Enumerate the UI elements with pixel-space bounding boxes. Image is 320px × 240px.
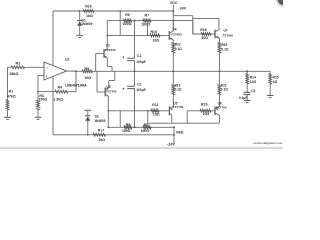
svg-text:0.1μF: 0.1μF	[239, 96, 247, 100]
wire cross top	[119, 11, 121, 35]
node U3C L2B	[107, 110, 109, 128]
svg-text:+: +	[46, 75, 48, 79]
node VCC L1	[172, 10, 174, 12]
node D2 rail	[87, 134, 89, 136]
svg-text:FZT705: FZT705	[216, 105, 227, 109]
svg-text:FZT605: FZT605	[171, 32, 182, 36]
ground R1	[4, 110, 11, 119]
power VEE	[167, 127, 184, 146]
resistor R6	[123, 13, 132, 26]
wire R2 to op-amp	[25, 66, 45, 68]
node U4 emitter rail	[172, 70, 174, 72]
wire U2 emitter	[107, 58, 112, 71]
capacitor C1	[122, 21, 145, 72]
wire bottom base bus left	[108, 110, 169, 112]
svg-text:R1: R1	[9, 90, 14, 94]
svg-text:FZT605: FZT605	[105, 48, 116, 52]
wire top rail	[53, 10, 173, 12]
svg-text:47kΩ: 47kΩ	[7, 95, 16, 99]
node feedback out	[75, 70, 77, 72]
watermark corner mark	[276, 0, 284, 8]
svg-text:10Ω: 10Ω	[153, 113, 160, 117]
svg-text:C3: C3	[251, 89, 255, 93]
svg-text:10Ω: 10Ω	[84, 76, 91, 80]
wire bias riser top	[147, 21, 149, 37]
svg-text:10Ω: 10Ω	[201, 36, 208, 40]
wire L2 right corner	[192, 21, 194, 34]
svg-text:10Ω: 10Ω	[153, 39, 160, 43]
svg-text:R7: R7	[145, 14, 150, 18]
svg-text:15kΩ: 15kΩ	[9, 72, 18, 76]
wire U3 emitter	[109, 71, 115, 87]
wire V+ riser	[52, 11, 54, 65]
resistor R15	[269, 71, 279, 95]
resistor R3	[37, 92, 48, 111]
node cross top	[119, 10, 121, 12]
page bottom rule	[0, 147, 283, 149]
wire inverting input	[38, 76, 44, 92]
svg-text:U7: U7	[224, 28, 228, 32]
watermark text	[253, 141, 283, 145]
wire U5 collector	[171, 115, 173, 123]
svg-text:-24V: -24V	[167, 142, 175, 146]
ground C3	[244, 100, 251, 102]
svg-text:0.1Ω: 0.1Ω	[221, 88, 228, 92]
svg-text:R6: R6	[125, 13, 130, 17]
svg-text:100μF: 100μF	[136, 60, 146, 64]
wire cross bottom	[119, 111, 121, 128]
svg-text:R4: R4	[58, 85, 63, 89]
capacitor C3	[239, 89, 256, 100]
resistor R16	[83, 4, 94, 17]
node VEE L2B	[173, 126, 175, 128]
svg-text:R14: R14	[250, 75, 256, 79]
resistor R5	[82, 67, 93, 80]
svg-text:circuit-diagramz.com: circuit-diagramz.com	[253, 141, 283, 145]
resistor R12	[172, 40, 182, 71]
resistor R10	[150, 30, 160, 43]
diode D2	[85, 110, 106, 135]
svg-text:R11: R11	[152, 103, 158, 107]
wire U6 collector	[218, 115, 220, 123]
svg-text:R15: R15	[273, 75, 279, 79]
wire top base bus left	[106, 35, 169, 37]
resistor R8	[122, 123, 132, 133]
node C2 tap	[134, 126, 136, 128]
svg-text:0.1Ω: 0.1Ω	[175, 47, 182, 51]
svg-text:100Ω: 100Ω	[141, 22, 150, 26]
svg-text:VCC: VCC	[170, 1, 178, 5]
svg-text:R10: R10	[151, 30, 157, 34]
wire U4 collector	[172, 21, 174, 31]
op-amp U1	[44, 57, 87, 87]
svg-text:150Ω: 150Ω	[39, 98, 48, 102]
node VEE L1B	[173, 134, 175, 136]
svg-text:FZT605: FZT605	[223, 33, 234, 37]
node C1 rail	[134, 70, 136, 72]
wire U2 base	[96, 53, 104, 71]
resistor R17	[93, 129, 106, 142]
resistor R20	[218, 39, 229, 72]
wire bottom rail	[53, 134, 174, 136]
svg-text:VEE: VEE	[176, 131, 184, 135]
svg-text:R17: R17	[98, 129, 104, 133]
power VCC	[170, 1, 187, 31]
ground R3	[35, 110, 42, 119]
svg-text:−: −	[46, 66, 48, 70]
wire feedback riser	[75, 71, 77, 91]
ground D1	[76, 35, 83, 37]
resistor R14	[246, 71, 257, 92]
svg-text:100Ω: 100Ω	[122, 129, 131, 133]
svg-text:0.1Ω: 0.1Ω	[175, 88, 182, 92]
transistor U7	[215, 28, 233, 38]
wire bottom base bus right	[187, 111, 215, 123]
wire second bottom line	[108, 126, 174, 128]
node VCC L2	[172, 20, 174, 22]
transistor U3	[105, 85, 117, 97]
diode D1	[77, 11, 93, 35]
node C1 tap	[134, 20, 136, 22]
wire input node	[8, 67, 12, 99]
ground R15	[267, 96, 274, 98]
svg-text:FZT705: FZT705	[106, 89, 117, 93]
transistor U2	[104, 44, 116, 58]
wire op-amp output	[67, 70, 83, 72]
resistor R1	[6, 90, 16, 111]
svg-text:1kΩ: 1kΩ	[86, 14, 93, 18]
node U7 emitter rail	[219, 70, 221, 72]
resistor R2	[9, 61, 25, 76]
wire top base bus right	[193, 33, 215, 35]
svg-text:4Ω: 4Ω	[273, 80, 278, 84]
resistor R19	[200, 103, 211, 116]
svg-text:24V: 24V	[180, 7, 187, 11]
resistor R4	[38, 85, 76, 101]
svg-text:R16: R16	[85, 4, 92, 8]
transistor U5	[169, 101, 183, 115]
transistor U6	[215, 102, 227, 116]
resistor R11	[151, 103, 160, 116]
svg-text:C1: C1	[137, 54, 142, 58]
svg-text:FZT705: FZT705	[173, 105, 184, 109]
wire bias riser bottom	[147, 110, 149, 123]
svg-text:1N4609: 1N4609	[94, 119, 105, 123]
resistor R7	[141, 14, 151, 27]
svg-text:R18: R18	[200, 28, 206, 32]
node zobel tap	[246, 70, 248, 72]
svg-text:100Ω: 100Ω	[123, 22, 132, 26]
svg-text:R19: R19	[201, 103, 207, 107]
resistor R21	[218, 71, 228, 106]
svg-text:C2: C2	[137, 82, 142, 86]
wire second top line	[107, 20, 193, 22]
node feedback input	[37, 91, 39, 93]
svg-text:1kΩ: 1kΩ	[98, 138, 105, 142]
wire collector return	[148, 122, 220, 124]
wire output rail	[93, 70, 271, 72]
svg-text:100Ω: 100Ω	[141, 129, 150, 133]
svg-text:10Ω: 10Ω	[203, 112, 210, 116]
svg-text:D2: D2	[95, 114, 99, 118]
resistor R9	[141, 123, 151, 133]
svg-text:0.1Ω: 0.1Ω	[222, 47, 229, 51]
svg-text:1N4609: 1N4609	[81, 22, 92, 26]
transistor U4	[169, 28, 182, 40]
wire VCC to U7 collector	[173, 16, 219, 34]
svg-text:R2: R2	[16, 61, 21, 65]
svg-text:10Ω: 10Ω	[250, 80, 257, 84]
wire V- riser	[52, 77, 54, 135]
node D1 tap	[79, 10, 81, 12]
svg-text:1.5kΩ: 1.5kΩ	[54, 97, 64, 101]
resistor R18	[200, 28, 211, 40]
svg-text:R8: R8	[126, 123, 131, 127]
svg-text:100μF: 100μF	[136, 88, 146, 92]
svg-text:R5: R5	[84, 67, 89, 71]
svg-text:U1: U1	[65, 57, 70, 61]
wire U2 collector	[106, 21, 108, 49]
capacitor C2	[122, 71, 145, 127]
svg-text:R9: R9	[144, 123, 149, 127]
wire U3 collector	[107, 97, 110, 128]
wire U3 base	[97, 71, 105, 92]
resistor R13	[172, 71, 182, 106]
